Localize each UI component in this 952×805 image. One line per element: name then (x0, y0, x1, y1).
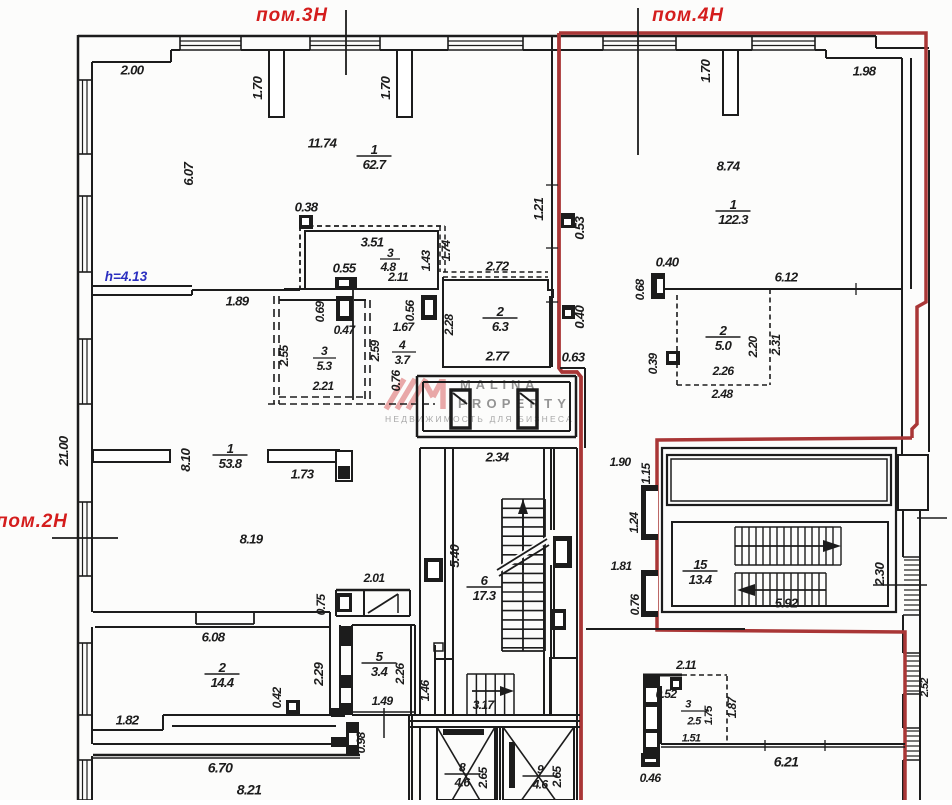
svg-text:1.70: 1.70 (378, 76, 393, 100)
svg-text:PROPERTY: PROPERTY (458, 396, 571, 411)
svg-text:0.63: 0.63 (562, 349, 586, 364)
svg-text:5.0: 5.0 (715, 338, 733, 353)
svg-text:h=4.13: h=4.13 (105, 269, 148, 284)
svg-text:3: 3 (387, 246, 394, 260)
svg-text:пом.4Н: пом.4Н (652, 5, 724, 26)
svg-text:2.26: 2.26 (712, 364, 735, 378)
svg-text:0.56: 0.56 (403, 300, 417, 322)
svg-text:0.39: 0.39 (646, 353, 660, 375)
svg-text:9: 9 (537, 762, 544, 776)
svg-text:3.17: 3.17 (473, 698, 496, 712)
svg-text:1.73: 1.73 (291, 466, 315, 481)
svg-text:3.4: 3.4 (371, 664, 389, 679)
svg-text:1.98: 1.98 (853, 63, 877, 78)
svg-text:1.49: 1.49 (372, 694, 394, 708)
svg-text:6.12: 6.12 (775, 269, 799, 284)
svg-text:пом.2Н: пом.2Н (0, 511, 68, 532)
svg-text:НЕДВИЖИМОСТЬ ДЛЯ БИЗНЕСА: НЕДВИЖИМОСТЬ ДЛЯ БИЗНЕСА (385, 414, 574, 424)
svg-text:122.3: 122.3 (718, 212, 749, 227)
svg-text:0.68: 0.68 (633, 279, 647, 301)
svg-text:6.07: 6.07 (181, 162, 196, 186)
svg-text:5.40: 5.40 (447, 544, 462, 568)
svg-text:1.51: 1.51 (682, 733, 701, 745)
svg-text:1: 1 (227, 441, 234, 456)
svg-text:0.52: 0.52 (656, 687, 678, 701)
svg-text:2.28: 2.28 (442, 314, 456, 337)
svg-text:4.6: 4.6 (532, 777, 549, 791)
svg-text:1.74: 1.74 (439, 240, 453, 262)
svg-text:2.48: 2.48 (711, 387, 734, 401)
svg-text:1.43: 1.43 (419, 250, 433, 272)
svg-text:8.74: 8.74 (717, 158, 741, 173)
svg-text:3: 3 (685, 699, 691, 711)
svg-text:1.70: 1.70 (250, 76, 265, 100)
svg-text:4: 4 (398, 338, 406, 352)
svg-text:8: 8 (459, 760, 466, 774)
svg-text:2.65: 2.65 (476, 767, 490, 790)
svg-text:0.42: 0.42 (270, 687, 284, 709)
svg-text:1.81: 1.81 (611, 559, 633, 573)
svg-text:3: 3 (321, 344, 328, 358)
svg-text:1.82: 1.82 (116, 712, 140, 727)
svg-text:1.15: 1.15 (639, 463, 653, 485)
svg-text:2.55: 2.55 (277, 345, 291, 368)
svg-text:1: 1 (371, 142, 378, 157)
svg-text:2.29: 2.29 (311, 662, 326, 687)
svg-text:2.00: 2.00 (120, 62, 145, 77)
svg-text:6.3: 6.3 (492, 319, 510, 334)
svg-text:1: 1 (730, 197, 737, 212)
svg-text:0.47: 0.47 (334, 323, 357, 337)
svg-text:0.40: 0.40 (656, 254, 680, 269)
svg-text:1.87: 1.87 (725, 696, 739, 719)
svg-text:2.11: 2.11 (675, 658, 697, 672)
svg-text:2.77: 2.77 (485, 348, 510, 363)
svg-text:1.46: 1.46 (418, 680, 432, 702)
svg-text:0.46: 0.46 (640, 771, 662, 785)
svg-text:3.7: 3.7 (395, 353, 412, 367)
svg-text:0.55: 0.55 (333, 260, 357, 275)
svg-text:1.75: 1.75 (703, 705, 715, 725)
svg-text:1.21: 1.21 (531, 198, 546, 221)
svg-text:21.00: 21.00 (56, 435, 71, 467)
svg-text:2.30: 2.30 (872, 562, 887, 587)
svg-text:2.31: 2.31 (769, 334, 783, 357)
svg-text:2.21: 2.21 (312, 379, 335, 393)
svg-text:0.38: 0.38 (295, 199, 319, 214)
svg-text:5.3: 5.3 (317, 359, 333, 373)
svg-text:8.19: 8.19 (240, 531, 264, 546)
svg-text:6.21: 6.21 (774, 754, 799, 770)
svg-text:2.26: 2.26 (393, 663, 407, 686)
svg-text:0.98: 0.98 (354, 732, 368, 754)
svg-text:8.21: 8.21 (237, 782, 262, 798)
svg-text:2.5: 2.5 (686, 716, 702, 728)
svg-text:15: 15 (693, 557, 708, 572)
svg-text:0.76: 0.76 (628, 594, 642, 616)
svg-text:14.4: 14.4 (211, 675, 235, 690)
svg-text:2.34: 2.34 (485, 449, 510, 464)
svg-text:11.74: 11.74 (308, 135, 338, 150)
svg-text:1.70: 1.70 (698, 59, 713, 83)
svg-text:2.72: 2.72 (485, 258, 510, 273)
svg-text:1.89: 1.89 (226, 293, 250, 308)
svg-text:1.90: 1.90 (610, 455, 632, 469)
svg-text:2.11: 2.11 (387, 270, 409, 284)
svg-text:6.08: 6.08 (202, 629, 226, 644)
svg-text:3.51: 3.51 (361, 234, 384, 249)
svg-text:0.76: 0.76 (389, 370, 403, 392)
svg-text:8.10: 8.10 (178, 448, 193, 472)
svg-text:6.70: 6.70 (208, 760, 233, 776)
svg-text:4.6: 4.6 (454, 775, 471, 789)
svg-text:2.20: 2.20 (746, 336, 760, 359)
svg-text:13.4: 13.4 (689, 572, 713, 587)
svg-text:2.59: 2.59 (368, 340, 382, 363)
svg-text:2.52: 2.52 (919, 678, 931, 698)
svg-text:53.8: 53.8 (219, 456, 243, 471)
svg-text:17.3: 17.3 (473, 588, 497, 603)
svg-text:0.69: 0.69 (313, 301, 327, 323)
svg-text:5.92: 5.92 (775, 595, 799, 610)
svg-text:2.65: 2.65 (550, 766, 564, 789)
svg-text:62.7: 62.7 (363, 157, 387, 172)
svg-text:пом.3Н: пом.3Н (256, 5, 328, 26)
svg-text:2.01: 2.01 (363, 571, 386, 585)
svg-text:1.24: 1.24 (627, 512, 641, 534)
